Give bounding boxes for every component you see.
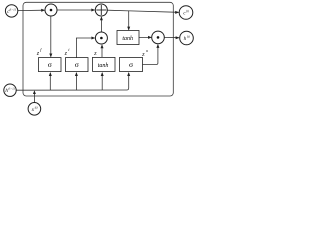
svg-text:(t): (t) [186,9,189,13]
svg-text:σ: σ [48,60,52,69]
svg-text:(t−1): (t−1) [10,7,16,11]
svg-text:tanh: tanh [122,36,133,42]
svg-text:σ: σ [75,60,79,69]
svg-text:(t): (t) [187,35,190,39]
svg-text:σ: σ [129,60,133,69]
svg-text:(t): (t) [35,105,38,109]
svg-text:tanh: tanh [98,63,109,69]
svg-text:(t−1): (t−1) [9,87,15,91]
